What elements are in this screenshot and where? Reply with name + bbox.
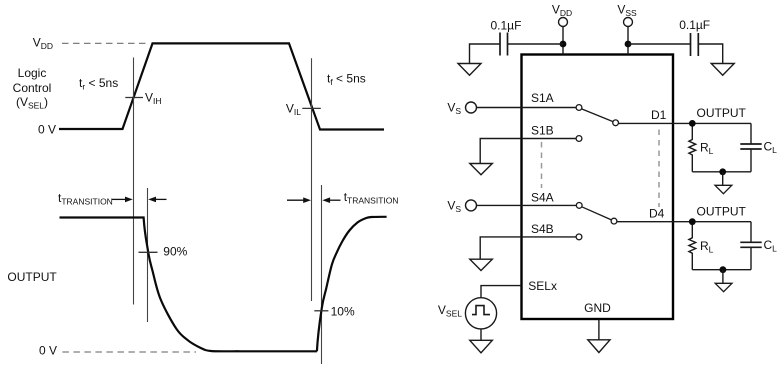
svg-text:OUTPUT: OUTPUT [7, 270, 57, 284]
wire S1B to ground [480, 139, 521, 164]
svg-text:OUTPUT: OUTPUT [697, 204, 747, 218]
ground (S1B) [470, 164, 493, 175]
wire S1B inside [522, 138, 576, 140]
capacitor CL1 [750, 123, 752, 143]
svg-text:Control: Control [13, 81, 52, 95]
wire output waveform rise + high [317, 217, 387, 351]
svg-text:Logic: Logic [18, 66, 47, 80]
resistor RL2 [689, 225, 696, 270]
wire D1 output [619, 122, 752, 124]
source VSEL pulse glyph [472, 306, 490, 315]
ground (left cap) [458, 64, 481, 76]
terminal VSS circle [624, 18, 633, 27]
node D1 junction dot [689, 120, 696, 127]
wire load2 bottom [692, 269, 751, 271]
node load1 junction dot [719, 168, 726, 175]
svg-text:OUTPUT: OUTPUT [697, 106, 747, 120]
node load2 junction dot [720, 266, 727, 273]
wire arrow left-out [154, 198, 167, 200]
node 90% tick [139, 251, 158, 253]
wire VSS pin [627, 27, 629, 55]
wire arrow left-in [112, 198, 127, 200]
node reference line 3 (falling edge) [311, 58, 313, 301]
svg-text:10%: 10% [331, 305, 355, 319]
node reference line 2 (90% point) [147, 188, 149, 322]
node 0V level dashed line (output) [62, 351, 196, 353]
node 10% tick [314, 310, 328, 312]
wire D4 output [617, 221, 751, 223]
wire ganged-switch dashed link left [541, 142, 543, 188]
switch SW4 pole circle [576, 203, 582, 209]
switch SW1 B contact circle [576, 136, 582, 142]
node VIL tick [302, 107, 321, 109]
terminal VDD circle [559, 18, 568, 27]
wire C1 to ground [470, 44, 501, 63]
switch SW1 pole circle [576, 105, 582, 111]
svg-text:S4A: S4A [531, 191, 554, 205]
ground (GND pin) [588, 340, 610, 353]
svg-text:S1A: S1A [531, 91, 554, 105]
svg-text:0.1µF: 0.1µF [679, 18, 710, 32]
wire C2 to ground [698, 44, 722, 63]
wire S4B inside [522, 236, 576, 238]
svg-text:0 V: 0 V [39, 344, 57, 358]
ground (load 2, small) [715, 283, 732, 291]
wire VDD pin [562, 27, 564, 55]
svg-text:90%: 90% [163, 245, 187, 259]
svg-text:S4B: S4B [531, 222, 554, 236]
svg-text:D1: D1 [651, 108, 667, 122]
node VDD junction dot [560, 41, 567, 48]
ground (right cap) [711, 64, 734, 76]
node D4 junction dot [689, 218, 696, 225]
IC U1 box [522, 55, 674, 320]
switch SW1 throw circle [613, 120, 619, 126]
svg-text:GND: GND [584, 301, 611, 315]
capacitor CL2 [750, 222, 752, 242]
svg-text:SELx: SELx [528, 279, 557, 293]
svg-text:0 V: 0 V [38, 123, 56, 137]
source VSEL pulse generator circle [465, 298, 496, 329]
ground (load 1, small) [715, 185, 732, 193]
svg-text:tf < 5ns: tf < 5ns [327, 72, 366, 88]
ground (VSEL) [470, 340, 493, 353]
wire VSEL to ground [480, 329, 482, 340]
node reference line 4 (10% point) [321, 185, 323, 364]
wire GND pin [598, 320, 600, 340]
wire VS to S4A [477, 204, 577, 206]
switch SW1 arm [582, 109, 613, 122]
wire S4B to ground [480, 237, 521, 259]
svg-text:D4: D4 [649, 207, 665, 221]
node VIH tick [125, 97, 143, 99]
wire VSS to C2 [628, 43, 691, 45]
wire output waveform high + fall + low [60, 218, 317, 352]
node VDD level dashed line [62, 42, 150, 44]
wire load1 bottom [692, 171, 751, 173]
wire arrow right-in [287, 199, 305, 201]
svg-text:0.1µF: 0.1µF [491, 19, 522, 33]
capacitor C2 0.1uF plates [690, 33, 692, 56]
wire SELx to VSEL source [481, 286, 522, 298]
wire arrow right-out [329, 199, 341, 201]
switch SW4 throw circle [611, 218, 617, 224]
wire load2 ground stem [722, 270, 724, 283]
svg-text:tr < 5ns: tr < 5ns [79, 76, 118, 92]
ground (S4B) [470, 259, 493, 270]
switch SW4 B contact circle [576, 234, 582, 240]
capacitor C1 0.1uF plates [499, 33, 501, 56]
resistor RL1 [689, 127, 696, 172]
switch SW4 arm [582, 207, 612, 220]
node reference line 1 (rising edge) [133, 58, 135, 305]
wire VDD to C1 [508, 43, 564, 45]
wire logic-control waveform [59, 43, 384, 129]
wire VS to S1A [477, 107, 577, 109]
wire load1 ground stem [722, 172, 724, 185]
node VSS junction dot [625, 41, 632, 48]
wire ganged-switch dashed link right [658, 130, 660, 208]
svg-text:S1B: S1B [531, 124, 554, 138]
